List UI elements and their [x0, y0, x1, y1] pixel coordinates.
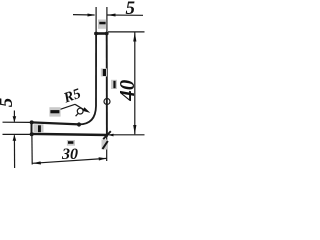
- top dim 5: left extension line: [95, 7, 97, 33]
- handle box top: [98, 20, 106, 29]
- right dim 40: dimension line: [134, 33, 136, 135]
- handle box bottom right with slash: [102, 140, 109, 150]
- top dim 5: left arrow: [88, 14, 96, 17]
- svg-text:5: 5: [126, 0, 136, 19]
- bar cap corner dot bottom: [30, 132, 34, 136]
- junction slash bottom right: [103, 131, 111, 139]
- junction small left arrow: [108, 134, 114, 137]
- small circle marker on leg right edge: [104, 99, 110, 105]
- handle box left of leader dash: [50, 110, 59, 113]
- left dim 5: dim line lower segment: [13, 135, 15, 168]
- right dim 40: top arrow: [133, 32, 136, 41]
- horizontal bar left cap: [31, 121, 33, 135]
- handle box right of leg dash: [113, 81, 115, 88]
- small tick below circle marker: [76, 113, 79, 116]
- vertical leg left edge: [95, 33, 97, 106]
- handle box near 30 dash: [68, 141, 73, 144]
- top dim 5: dimension line left segment: [73, 14, 95, 16]
- horizontal bar bottom edge: [32, 134, 108, 135]
- svg-text:40: 40: [115, 79, 139, 102]
- small circle marker at fillet center: [77, 108, 83, 114]
- vertical leg top cap: [94, 32, 108, 35]
- R5 leader falling segment: [75, 104, 86, 111]
- bottom dim 30: dimension line: [33, 158, 107, 163]
- fillet arc R5: [79, 106, 96, 124]
- handle box top dash: [99, 22, 105, 25]
- bottom dim 30: left arrow: [33, 161, 42, 164]
- handle box in bar dash: [38, 125, 41, 132]
- leg cap corner dot right: [105, 32, 109, 36]
- top dim 5: right extension line: [106, 7, 108, 33]
- top dim 5: right arrow: [108, 14, 116, 17]
- bottom dim 30: right arrow: [99, 157, 107, 160]
- top dim 5: dimension line right segment: [108, 14, 144, 16]
- fillet tangent dot on bar: [77, 122, 81, 126]
- handle box left of leader: [49, 107, 60, 116]
- horizontal bar top edge: [32, 122, 80, 124]
- right dim 40: bottom extension line: [108, 134, 145, 136]
- svg-text:5: 5: [0, 97, 17, 107]
- bottom dim 30: left extension line: [31, 136, 33, 165]
- right dim 40: bottom arrow: [133, 125, 136, 135]
- handle box in bar: [34, 124, 44, 133]
- left dim 5: upper arrow pointing down: [13, 116, 17, 122]
- left dim 5: bottom extension line: [3, 133, 31, 135]
- vertical leg right edge: [106, 33, 108, 137]
- svg-text:30: 30: [61, 146, 78, 163]
- handle box mid-leg dash: [103, 69, 106, 76]
- left dim 5: lower arrow pointing up: [13, 135, 17, 141]
- bottom dim 30: right extension line: [106, 137, 108, 161]
- R5 leader arrowhead: [83, 107, 91, 113]
- right dim 40: top extension line: [108, 31, 145, 33]
- handle box mid-leg: [101, 68, 107, 76]
- left dim 5: top extension line: [3, 121, 31, 123]
- leg cap corner dot left: [94, 32, 98, 36]
- handle box right of leg: [111, 80, 117, 89]
- R5 leader line rising segment: [52, 104, 76, 112]
- handle box bottom right slash: [103, 141, 108, 149]
- left dim 5: dim line upper segment: [13, 111, 15, 122]
- handle box near 30: [67, 140, 75, 146]
- bar cap corner dot top: [30, 120, 34, 124]
